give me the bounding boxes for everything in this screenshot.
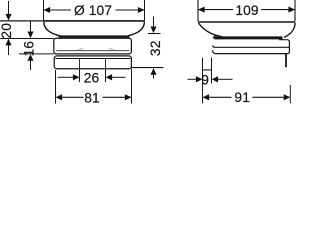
svg-text:109: 109 xyxy=(235,3,259,18)
svg-text:91: 91 xyxy=(234,90,250,105)
svg-text:26: 26 xyxy=(84,71,100,86)
svg-text:16: 16 xyxy=(22,41,37,57)
svg-text:Ø 107: Ø 107 xyxy=(74,3,112,18)
svg-text:81: 81 xyxy=(84,91,100,106)
svg-text:20: 20 xyxy=(0,23,14,39)
svg-text:32: 32 xyxy=(148,41,163,57)
svg-text:9: 9 xyxy=(201,73,209,88)
